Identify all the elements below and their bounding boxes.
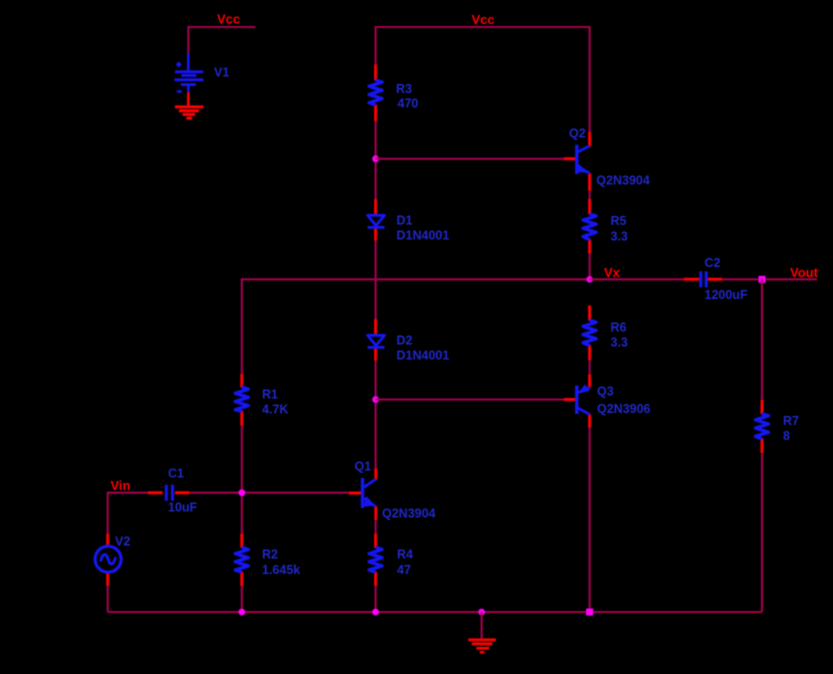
ground (bottom rail)	[468, 640, 496, 652]
wire bottom ground rail	[108, 611, 762, 613]
svg-text:V1: V1	[214, 66, 229, 80]
wire Q2 emitter to R5	[589, 191, 591, 199]
capacitor C1	[166, 485, 172, 501]
resistor R2	[235, 547, 248, 572]
svg-text:1200uF: 1200uF	[705, 288, 748, 302]
wire R5 to Vx	[589, 254, 591, 279]
svg-text:4.7K: 4.7K	[262, 403, 288, 417]
resistor R7 pin leads	[761, 400, 764, 453]
voltage source V2 pin leads	[106, 534, 109, 586]
resistor R4	[369, 547, 382, 572]
svg-text:R7: R7	[783, 414, 799, 428]
node junction bottom (ground)	[478, 609, 485, 616]
svg-text:R2: R2	[262, 548, 278, 562]
wire Q1 emitter to R4	[375, 520, 377, 534]
svg-text:R1: R1	[262, 388, 278, 402]
resistor R1	[235, 387, 248, 411]
svg-text:R6: R6	[611, 321, 627, 335]
wire D1 to D2	[375, 241, 377, 320]
transistor Q1 pin leads	[349, 469, 376, 521]
diode D1 pin leads	[374, 199, 377, 241]
svg-text:Vcc: Vcc	[217, 12, 240, 27]
svg-text:D1: D1	[397, 214, 413, 228]
voltage source V2	[95, 546, 121, 572]
svg-text:10uF: 10uF	[168, 501, 198, 515]
svg-text:C1: C1	[168, 467, 184, 481]
node Vx	[586, 276, 593, 283]
svg-text:Q1: Q1	[355, 460, 372, 474]
transistor Q2 pin leads	[564, 132, 590, 191]
svg-text:8: 8	[783, 429, 790, 443]
svg-text:Q3: Q3	[597, 385, 614, 399]
node junction at R7 top	[759, 276, 766, 283]
wire ground stub	[481, 612, 483, 639]
wire top Vcc rail	[376, 27, 590, 132]
resistor R6 pin leads	[588, 305, 591, 360]
svg-text:Vout: Vout	[790, 265, 819, 280]
svg-text:Vcc: Vcc	[472, 12, 495, 27]
wire C1 to Q1 base	[189, 492, 349, 494]
capacitor C2 pin leads	[684, 278, 722, 281]
resistor R5	[583, 214, 596, 240]
svg-text:3.3: 3.3	[611, 229, 628, 243]
resistor R6	[583, 320, 596, 345]
svg-text:D1N4001: D1N4001	[397, 349, 450, 363]
svg-text:D2: D2	[397, 334, 413, 348]
svg-text:Vx: Vx	[604, 265, 621, 280]
wire Q3 base	[376, 398, 564, 400]
svg-text:Q2N3906: Q2N3906	[597, 402, 651, 416]
wire R1 to C1 node	[241, 426, 243, 534]
resistor R2 pin leads	[240, 534, 243, 586]
battery V1	[175, 54, 204, 93]
wire R2 to bottom rail	[241, 586, 243, 612]
svg-text:V2: V2	[115, 535, 130, 549]
wire Vout node down to R7	[761, 279, 763, 400]
svg-text:R4: R4	[397, 548, 413, 562]
node junction bottom (Q3 collector)	[586, 609, 593, 616]
wire V2 to bottom rail	[107, 586, 109, 612]
resistor R7	[756, 414, 769, 440]
resistor R3 pin leads	[374, 65, 377, 122]
resistor R3	[369, 80, 382, 105]
svg-text:47: 47	[397, 563, 411, 577]
node junction at Q2 base wire	[372, 155, 379, 162]
svg-text:Q2N3904: Q2N3904	[596, 174, 650, 188]
svg-text:R5: R5	[611, 214, 627, 228]
svg-text:C2: C2	[705, 256, 721, 270]
node junction at Q3 base wire	[372, 396, 379, 403]
svg-text:470: 470	[398, 96, 419, 110]
diode D2 pin leads	[374, 319, 377, 361]
svg-text:D1N4001: D1N4001	[397, 229, 450, 243]
svg-text:Q2N3904: Q2N3904	[382, 507, 436, 521]
wire V1 to ground	[187, 92, 190, 107]
wire R3 bottom to D1	[375, 121, 377, 199]
svg-text:Q2: Q2	[569, 127, 586, 141]
svg-text:3.3: 3.3	[611, 336, 628, 350]
resistor R5 pin leads	[588, 199, 591, 254]
wire C2 to Vout	[722, 278, 817, 280]
transistor Q3 pin leads	[564, 374, 590, 427]
node junction bottom left (R2)	[238, 609, 245, 616]
wire Vin to C1	[108, 493, 148, 534]
wire Q3 collector down	[589, 428, 591, 612]
wire Vx to C2	[590, 278, 684, 280]
diode D2	[368, 335, 385, 347]
wire Vx rail to R1 top	[242, 279, 590, 374]
diode D1	[368, 215, 385, 227]
wire D2 to Q1 collector	[375, 361, 377, 469]
wire R4 to bottom rail	[375, 586, 377, 612]
capacitor C2	[701, 271, 706, 287]
svg-text:R3: R3	[396, 82, 412, 96]
transistor Q3	[577, 384, 590, 414]
wire Vcc stub at V1	[188, 27, 255, 54]
resistor R1 pin leads	[240, 374, 243, 426]
resistor R4 pin leads	[374, 534, 377, 586]
wire Q2 base	[376, 158, 564, 160]
wire R6 to Q3 emitter	[589, 360, 591, 374]
capacitor C1 pin leads	[148, 491, 189, 494]
transistor Q2	[577, 145, 590, 174]
ground at V1	[175, 107, 204, 118]
wire R7 to bottom rail	[761, 453, 763, 612]
node junction at C1/R1/R2	[238, 489, 245, 496]
node junction bottom (R4)	[372, 609, 379, 616]
svg-text:Vin: Vin	[111, 478, 131, 493]
transistor Q1	[363, 478, 376, 508]
svg-text:1.645k: 1.645k	[262, 563, 300, 577]
